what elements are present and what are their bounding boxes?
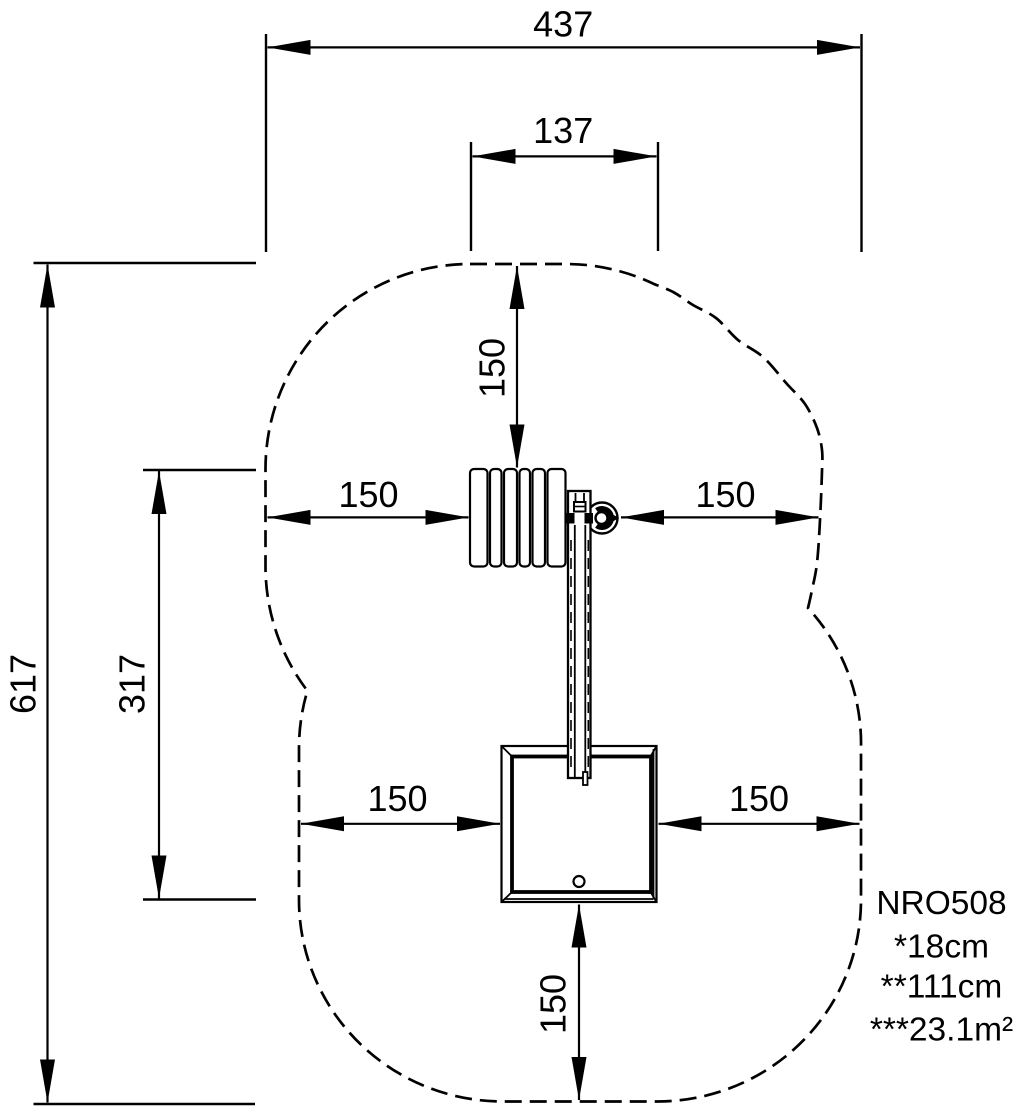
svg-text:NRO508: NRO508 (876, 885, 1006, 922)
square platform corner mitres (502, 746, 657, 902)
dimension 317 text (112, 654, 153, 714)
post bottom tip (583, 772, 588, 785)
label ***23.1m2 (870, 1012, 1013, 1049)
dimension 150 upper-left arrow right (426, 510, 469, 525)
dimension 150 lower-left arrow left (301, 816, 344, 831)
post hidden edge lines (dashed) (571, 540, 588, 770)
dimension 137 text (533, 110, 593, 151)
svg-text:150: 150 (533, 974, 574, 1034)
dimension 617 arrow bottom (40, 1060, 55, 1103)
product label NRO508 (876, 885, 1006, 922)
dimension 150 upper-right line (621, 516, 819, 518)
dimension 437 arrow left (268, 40, 311, 55)
dimension 150 top arrow down (510, 425, 525, 468)
svg-text:317: 317 (112, 654, 153, 714)
label **111cm (881, 969, 1003, 1006)
dimension 150 upper-right arrow left (621, 510, 664, 525)
post outer profile (568, 491, 591, 778)
dimension 317 arrow bottom (152, 856, 167, 899)
dimension 437 arrow right (817, 40, 860, 55)
dimension 150 lower-left arrow right (457, 816, 500, 831)
dimension 137 arrow right (614, 149, 657, 164)
dimension 437 line (268, 46, 861, 48)
dimension 150 bottom arrow up (572, 905, 587, 948)
dimension 437 extension line left (265, 34, 267, 252)
svg-text:***23.1m²: ***23.1m² (870, 1012, 1013, 1049)
dimension 437 text (533, 4, 593, 45)
dimension 150 lower-right arrow left (659, 816, 702, 831)
square platform inner frame (thick) (512, 757, 651, 893)
svg-text:150: 150 (338, 474, 398, 515)
clamp block on post (574, 502, 586, 512)
svg-text:437: 437 (533, 4, 593, 45)
dimension 317 arrow top (152, 471, 167, 514)
safety zone outline (dashed buffer) (266, 264, 862, 1102)
dimension 150 upper-left line (268, 516, 469, 518)
post inner edge lines (575, 493, 586, 777)
dimension 617 extension line bottom (34, 1103, 256, 1105)
dimension 150 bottom text (533, 974, 574, 1034)
dimension 137 extension line left (470, 142, 472, 251)
dimension 150 top arrow up (510, 266, 525, 309)
svg-text:150: 150 (695, 474, 755, 515)
svg-text:617: 617 (3, 654, 44, 714)
pivot outer circle (587, 503, 618, 534)
dimension 150 top line (516, 266, 518, 468)
dimension 137 line (473, 155, 657, 157)
roller seat slats (470, 469, 566, 567)
dimension 137 extension line right (657, 142, 659, 251)
dimension 317 extension line bottom (143, 898, 256, 900)
pivot spring clip (black ring) (595, 506, 619, 530)
dimension 437 extension line right (860, 34, 862, 252)
svg-text:**111cm: **111cm (881, 969, 1003, 1006)
svg-text:150: 150 (729, 778, 789, 819)
dimension 150 upper-right text (695, 474, 755, 515)
dimension 617 extension line top (34, 262, 257, 264)
square platform bolt hole (574, 876, 585, 887)
svg-text:*18cm: *18cm (894, 929, 989, 966)
dimension 150 upper-left text (338, 474, 398, 515)
dimension 150 top text (472, 338, 513, 398)
dimension 317 extension line top (143, 469, 256, 471)
dimension 150 upper-left arrow left (268, 510, 311, 525)
svg-text:150: 150 (367, 778, 427, 819)
dimension 150 lower-left line (301, 823, 500, 825)
dimension 150 lower-right line (659, 823, 860, 825)
pivot inner circle (596, 512, 608, 524)
dimension 150 bottom arrow down (572, 1057, 587, 1100)
svg-text:137: 137 (533, 110, 593, 151)
clamp arm (black) (566, 513, 593, 524)
svg-text:150: 150 (472, 338, 513, 398)
dimension 150 lower-right arrow right (817, 816, 860, 831)
dimension 617 line (46, 265, 48, 1103)
dimension 150 lower-left text (367, 778, 427, 819)
dimension 137 arrow left (473, 149, 516, 164)
dimension 617 text (3, 654, 44, 714)
label *18cm (894, 929, 989, 966)
dimension 317 line (158, 471, 160, 899)
dimension 150 lower-right text (729, 778, 789, 819)
dimension 150 upper-right arrow right (776, 510, 819, 525)
dimension 617 arrow top (40, 265, 55, 308)
square platform outer frame (502, 746, 657, 902)
dimension 150 bottom line (578, 905, 580, 1101)
